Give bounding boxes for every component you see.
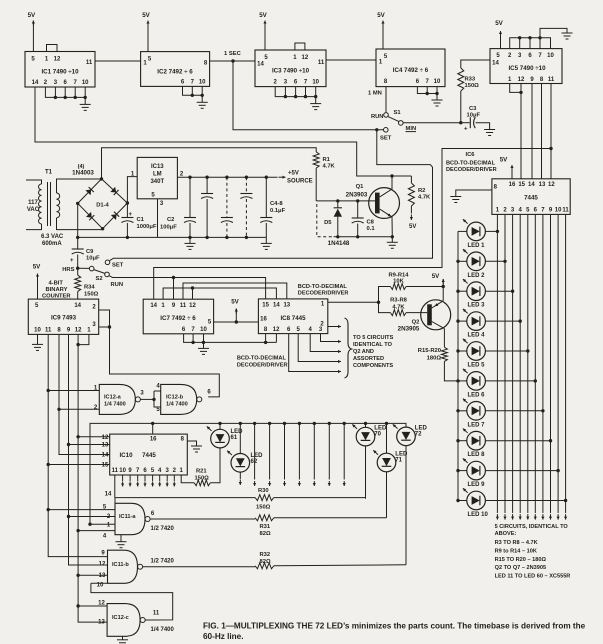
svg-text:SET: SET bbox=[112, 262, 124, 268]
ground IC1 bbox=[80, 97, 91, 110]
junction D5 bottom bbox=[336, 235, 339, 238]
IC9 label bbox=[51, 315, 77, 322]
wire IC1 pin10 bbox=[84, 87, 86, 97]
NAND gate IC11-b 7420 bbox=[108, 550, 143, 583]
svg-text:R9 to R14 – 10K: R9 to R14 – 10K bbox=[495, 548, 537, 554]
wire IC5 pin9 to IC6 pin14 bbox=[531, 84, 533, 179]
wire IC6 output column 6 bbox=[534, 214, 537, 519]
wire IC11-a pin14 stub bbox=[114, 498, 116, 504]
svg-text:7: 7 bbox=[136, 468, 140, 474]
wire IC13 pin3 to ground bus bbox=[157, 199, 159, 238]
junction C7 rail bbox=[265, 176, 268, 179]
svg-text:3: 3 bbox=[92, 322, 96, 328]
svg-text:100μF: 100μF bbox=[160, 225, 177, 231]
ground IC2 bbox=[197, 95, 208, 108]
600mA label bbox=[42, 241, 62, 247]
svg-text:10: 10 bbox=[555, 208, 562, 214]
junction colA IC11a bbox=[47, 508, 50, 511]
svg-text:9: 9 bbox=[530, 77, 534, 83]
junction colC IC10 bbox=[67, 443, 70, 446]
+5V rail bbox=[177, 176, 277, 178]
Q2 label bbox=[412, 320, 420, 326]
wire hidden LED column bbox=[313, 423, 316, 486]
IC11-b 1/2 7420 label bbox=[151, 559, 175, 565]
junction IC9 pin12 jumper bbox=[76, 343, 79, 346]
svg-text:IC11-a: IC11-a bbox=[119, 514, 136, 520]
wire IC12-a out bbox=[141, 398, 155, 400]
IC6 BCD text2 bbox=[446, 167, 497, 173]
svg-text:COMPONENTS: COMPONENTS bbox=[353, 363, 393, 369]
wire IC4 pin10 bbox=[436, 87, 438, 94]
svg-text:5V: 5V bbox=[409, 224, 416, 230]
wire Q1 emitter bus bbox=[334, 236, 393, 238]
wire IC1 pin14 clock line bbox=[35, 87, 411, 176]
svg-text:5V: 5V bbox=[259, 12, 267, 19]
RUN label S2 bbox=[111, 282, 124, 288]
svg-text:IC1 7490 ÷10: IC1 7490 ÷10 bbox=[41, 69, 79, 76]
wire column D IC9 pin12 bbox=[78, 334, 107, 622]
LED 2 bbox=[463, 249, 486, 279]
junction R9 R3 split bbox=[377, 301, 380, 304]
ground IC12-c bbox=[117, 636, 128, 644]
svg-text:3: 3 bbox=[284, 80, 288, 86]
svg-text:340T: 340T bbox=[150, 179, 164, 185]
svg-text:1: 1 bbox=[143, 61, 147, 67]
junction colE IC11a pin1 bbox=[88, 523, 91, 526]
junction hidden LED column bbox=[343, 422, 346, 425]
svg-text:1000μF: 1000μF bbox=[137, 224, 157, 230]
junction IC7 pin9 run line bbox=[172, 276, 175, 279]
svg-text:12: 12 bbox=[548, 182, 555, 188]
wire LED62 anode bbox=[239, 423, 241, 453]
svg-text:S1: S1 bbox=[394, 110, 402, 116]
resistor R15-R20 180ohm bbox=[441, 347, 458, 381]
wire colC to IC10 pin13 bbox=[69, 444, 110, 446]
wire IC10 output arrow bbox=[151, 475, 154, 487]
4-BIT label bbox=[48, 281, 63, 287]
IDENTICAL TO text bbox=[353, 342, 393, 348]
svg-text:5: 5 bbox=[297, 327, 301, 333]
svg-text:1/2 7420: 1/2 7420 bbox=[151, 526, 175, 532]
transistor Q1 2N3903 bbox=[369, 176, 400, 237]
IC4 label bbox=[393, 67, 429, 74]
svg-text:BCD-TO-DECIMAL: BCD-TO-DECIMAL bbox=[446, 161, 496, 167]
wire S1 pole to C3 node bbox=[403, 122, 461, 124]
wire colD to IC11a pin4 bbox=[78, 530, 115, 532]
1N4003 qty label bbox=[78, 164, 85, 170]
svg-text:4-BIT: 4-BIT bbox=[48, 281, 63, 287]
capacitor C2 100uF bbox=[184, 177, 196, 237]
C8 label bbox=[367, 220, 375, 226]
junction colA IC10 bbox=[47, 463, 50, 466]
D5 type bbox=[328, 240, 350, 247]
svg-text:ABOVE:: ABOVE: bbox=[495, 531, 517, 537]
wire IC7 pin12 riser bbox=[192, 288, 194, 299]
transformer T1 bbox=[26, 179, 103, 230]
svg-text:5: 5 bbox=[148, 57, 152, 63]
wire IC3 pin10 bbox=[315, 87, 317, 97]
svg-text:7445: 7445 bbox=[142, 452, 156, 459]
svg-text:IC8 7445: IC8 7445 bbox=[280, 315, 306, 322]
junction hidden LED column bbox=[328, 422, 331, 425]
svg-text:2: 2 bbox=[44, 80, 48, 86]
IC9 pin numbers bbox=[34, 303, 96, 334]
svg-text:IC2 7492 ÷ 6: IC2 7492 ÷ 6 bbox=[157, 69, 193, 76]
svg-text:D1-4: D1-4 bbox=[96, 203, 109, 209]
junction IC5 pin6 bbox=[528, 36, 531, 39]
ground IC6 pin8 bbox=[450, 197, 461, 203]
junction C6 rail bbox=[245, 176, 248, 179]
svg-text:BINARY: BINARY bbox=[45, 287, 67, 293]
svg-text:13: 13 bbox=[539, 182, 546, 188]
ground IC10 pin8 bbox=[191, 446, 202, 452]
wire column B IC9 pin8 bbox=[59, 334, 110, 454]
R30 label bbox=[258, 488, 269, 494]
junction colA IC12a bbox=[47, 389, 50, 392]
5V supply IC6 bbox=[500, 157, 514, 179]
svg-text:10: 10 bbox=[119, 468, 126, 474]
svg-text:150Ω: 150Ω bbox=[84, 292, 99, 298]
svg-text:7: 7 bbox=[541, 208, 545, 214]
wire colB to IC12a pin2 bbox=[59, 408, 99, 410]
switch S1 SET contact bbox=[384, 128, 389, 133]
svg-text:LED 2: LED 2 bbox=[468, 273, 486, 279]
IC11-b pin numbers bbox=[97, 551, 106, 589]
junction IC3 pin10 bbox=[314, 95, 317, 98]
svg-text:ASSORTED: ASSORTED bbox=[353, 356, 384, 362]
wire LED62 cathode arrow bbox=[239, 472, 242, 485]
wire LED70 anode bbox=[365, 423, 367, 427]
wire IC7 pin6 to gnd bus bbox=[184, 334, 277, 343]
wire IC8 pin8 bbox=[265, 334, 267, 343]
LED 8 bbox=[463, 429, 486, 459]
1 SEC label bbox=[224, 51, 242, 57]
wire IC10 pin16 bbox=[152, 423, 154, 434]
svg-text:IDENTICAL TO: IDENTICAL TO bbox=[353, 342, 393, 348]
wire LED 3 cathode bbox=[485, 290, 512, 292]
svg-text:14: 14 bbox=[528, 182, 535, 188]
BINARY label bbox=[45, 287, 67, 293]
svg-text:8: 8 bbox=[540, 77, 544, 83]
resistor R31 82ohm bbox=[150, 515, 386, 521]
capacitor C3 10uF bbox=[461, 117, 490, 132]
1 MN label bbox=[368, 91, 382, 97]
figure caption bbox=[203, 621, 586, 641]
HRS label bbox=[62, 267, 74, 273]
svg-text:13: 13 bbox=[283, 303, 290, 309]
svg-text:6.3 VAC: 6.3 VAC bbox=[41, 234, 64, 240]
svg-text:FIG. 1—MULTIPLEXING THE 72 LED: FIG. 1—MULTIPLEXING THE 72 LED’s minimiz… bbox=[203, 621, 586, 630]
117 VAC label bbox=[28, 200, 38, 206]
IC6 pin numbers bbox=[494, 182, 570, 214]
svg-text:2N3903: 2N3903 bbox=[346, 192, 368, 199]
+5V label bbox=[288, 170, 299, 176]
svg-text:11: 11 bbox=[86, 60, 93, 66]
LED 4 bbox=[463, 309, 486, 339]
wire IC10 output arrow bbox=[121, 475, 124, 487]
svg-text:RUN: RUN bbox=[111, 282, 124, 288]
wire IC4 pin6 to bus bbox=[417, 87, 437, 94]
C1 value bbox=[137, 224, 157, 230]
svg-text:70: 70 bbox=[374, 432, 381, 438]
wire IC1 pin6 bbox=[64, 87, 66, 97]
5V supply Q2 bbox=[432, 273, 445, 287]
IC13 340T bbox=[150, 179, 164, 185]
IC8 7445 decoder bbox=[258, 299, 327, 334]
svg-text:2: 2 bbox=[180, 172, 184, 178]
svg-text:C4-8: C4-8 bbox=[270, 201, 283, 207]
svg-text:LM: LM bbox=[153, 172, 162, 178]
svg-text:5V: 5V bbox=[377, 12, 385, 19]
svg-text:4.7K: 4.7K bbox=[392, 304, 405, 310]
svg-text:14: 14 bbox=[74, 303, 81, 309]
svg-text:14: 14 bbox=[105, 492, 112, 498]
wire IC10 pin8 gnd bbox=[187, 441, 196, 446]
IC11-a 1/2 7420 label bbox=[151, 526, 175, 532]
switch S2 SET contact bbox=[105, 260, 110, 265]
wire IC12-b input top bbox=[154, 390, 161, 392]
wire colA to IC10 pin15 bbox=[48, 464, 109, 466]
wire LED 10 anode bbox=[458, 500, 467, 502]
wire 1SEC drop to SET contacts bbox=[233, 61, 383, 130]
svg-text:Q2 AND: Q2 AND bbox=[353, 349, 374, 355]
svg-text:+: + bbox=[129, 212, 133, 218]
R9-R14 value bbox=[393, 279, 404, 285]
svg-text:5V: 5V bbox=[432, 273, 440, 280]
R15-R20 label bbox=[418, 348, 441, 354]
C3 value bbox=[467, 113, 481, 119]
svg-text:5: 5 bbox=[384, 54, 388, 60]
IC12-b pin numbers bbox=[156, 384, 211, 414]
ground IC3 bbox=[310, 97, 321, 110]
junction LED 8 column bbox=[549, 439, 552, 442]
5V supply IC4 bbox=[377, 12, 385, 49]
junction Q1 emitter bbox=[391, 235, 394, 238]
svg-text:1: 1 bbox=[45, 57, 49, 63]
ground C3 bbox=[484, 130, 495, 136]
svg-text:9: 9 bbox=[172, 303, 176, 309]
svg-text:7: 7 bbox=[191, 327, 195, 333]
R34 value bbox=[84, 292, 99, 298]
junction C9 top bbox=[76, 236, 79, 239]
svg-text:12: 12 bbox=[54, 57, 61, 63]
C8 value bbox=[367, 226, 376, 232]
svg-text:SOURCE: SOURCE bbox=[287, 178, 313, 184]
resistor R1 4.7K bbox=[313, 152, 319, 201]
svg-text:1/4 7400: 1/4 7400 bbox=[104, 401, 126, 407]
svg-text:5V: 5V bbox=[28, 12, 36, 19]
wire LED 4 cathode bbox=[485, 320, 520, 322]
svg-text:C8: C8 bbox=[367, 220, 375, 226]
D5 label bbox=[324, 220, 332, 226]
svg-text:14: 14 bbox=[492, 61, 499, 67]
wire IC6 output column 1 bbox=[496, 214, 499, 519]
svg-text:1 SEC: 1 SEC bbox=[224, 51, 242, 57]
junction LED 7 column bbox=[541, 409, 544, 412]
IC13 LM bbox=[153, 172, 162, 178]
ASSORTED text bbox=[353, 356, 384, 362]
svg-text:Q2 TO Q7 – 2N3905: Q2 TO Q7 – 2N3905 bbox=[495, 565, 547, 571]
svg-text:4.7K: 4.7K bbox=[418, 195, 431, 201]
junction LED 6 column bbox=[534, 379, 537, 382]
MIN label S1 bbox=[406, 126, 417, 132]
wire IC2 pin6 to bus bbox=[183, 86, 203, 95]
junction IC2 pin10 bbox=[201, 94, 204, 97]
C4-8 value bbox=[270, 208, 286, 214]
wire LED61 anode bbox=[219, 423, 221, 429]
switch S2 arm bbox=[94, 270, 105, 274]
notes line2 bbox=[495, 531, 517, 537]
wire LED 5 anode bbox=[458, 350, 467, 352]
svg-text:61: 61 bbox=[231, 435, 238, 441]
switch S2 RUN contact bbox=[105, 272, 110, 277]
6.3 VAC label bbox=[41, 234, 64, 240]
svg-text:11: 11 bbox=[180, 303, 187, 309]
IC10 label bbox=[119, 452, 133, 459]
svg-text:9: 9 bbox=[549, 208, 553, 214]
svg-text:R21: R21 bbox=[196, 469, 207, 475]
svg-text:3: 3 bbox=[140, 391, 144, 397]
R9-R14 label bbox=[389, 273, 410, 279]
junction LED 5 column bbox=[526, 349, 529, 352]
svg-text:1: 1 bbox=[180, 468, 184, 474]
svg-text:5: 5 bbox=[35, 303, 39, 309]
ground IC4 bbox=[432, 94, 443, 107]
wire column C IC9 pin9 bbox=[69, 334, 108, 565]
wire IC6 output column 4 bbox=[519, 214, 522, 519]
wire D5 dashed return bbox=[317, 204, 333, 237]
IC3 pin numbers bbox=[257, 55, 325, 86]
wire LED 2 anode bbox=[458, 260, 467, 262]
wire LED71 cathode bbox=[386, 472, 388, 518]
junction IC5 pin11 tens-minute tap bbox=[549, 147, 552, 150]
IC13 pin numbers bbox=[131, 172, 184, 208]
IC12-c 1/4 7400 label bbox=[151, 627, 175, 633]
COMPONENTS text bbox=[353, 363, 393, 369]
LED 9 bbox=[463, 458, 486, 488]
svg-text:16: 16 bbox=[509, 182, 516, 188]
svg-text:7: 7 bbox=[538, 53, 542, 59]
svg-text:2: 2 bbox=[92, 305, 96, 311]
1N4003 label bbox=[72, 170, 94, 177]
svg-text:10K: 10K bbox=[393, 279, 404, 285]
junction hidden LED column bbox=[283, 422, 286, 425]
junction IC7 pin7 bbox=[191, 341, 194, 344]
svg-text:150Ω: 150Ω bbox=[465, 83, 480, 89]
svg-text:14: 14 bbox=[273, 303, 280, 309]
junction IC3 pin7 bbox=[304, 95, 307, 98]
svg-text:4: 4 bbox=[158, 468, 162, 474]
svg-text:R15-R20: R15-R20 bbox=[418, 348, 441, 354]
resistor R33 150ohm bbox=[458, 68, 464, 123]
svg-text:LED 11 TO LED 60 – XC555R: LED 11 TO LED 60 – XC555R bbox=[495, 574, 571, 580]
wire IC9 pin2 reset bbox=[99, 310, 220, 397]
wire hidden LED column bbox=[283, 423, 286, 486]
svg-text:5V: 5V bbox=[500, 157, 508, 164]
wire bridge+ to IC13 pin1 bbox=[127, 177, 137, 203]
LED 72 bbox=[393, 424, 428, 446]
S2 label bbox=[96, 276, 103, 282]
wire IC10 output arrow bbox=[136, 475, 139, 487]
wire IC8 pin12 bbox=[275, 334, 277, 343]
svg-text:6: 6 bbox=[287, 327, 291, 333]
svg-text:11: 11 bbox=[45, 328, 52, 334]
svg-text:6: 6 bbox=[534, 208, 538, 214]
NAND gate IC12-c bbox=[107, 604, 145, 637]
junction LED70 bus bbox=[364, 422, 367, 425]
junction colD IC12c bbox=[76, 604, 79, 607]
junction C4 bus bbox=[205, 236, 208, 239]
wire hidden LED column bbox=[343, 423, 346, 486]
svg-text:7: 7 bbox=[191, 80, 195, 86]
jumper pin1-pin12 IC3 bbox=[295, 43, 305, 50]
svg-text:6: 6 bbox=[207, 390, 211, 396]
IC5 pin numbers bbox=[492, 53, 555, 83]
junction hidden LED column bbox=[298, 422, 301, 425]
svg-text:IC9 7493: IC9 7493 bbox=[51, 315, 77, 322]
svg-text:T1: T1 bbox=[45, 170, 53, 176]
wire IC1 pin3 bbox=[54, 87, 56, 97]
LED 5 bbox=[463, 339, 486, 369]
svg-text:180Ω: 180Ω bbox=[427, 356, 442, 362]
svg-text:600mA: 600mA bbox=[42, 241, 62, 247]
S1 label bbox=[394, 110, 402, 116]
svg-text:HRS: HRS bbox=[62, 267, 74, 273]
junction LED 8 anode bbox=[456, 439, 459, 442]
R31 label bbox=[260, 524, 271, 530]
wire IC9 pin3 reset bbox=[99, 326, 110, 328]
LED 7 bbox=[463, 399, 486, 429]
resistor R34 150ohm bbox=[75, 268, 81, 299]
wire IC6 output column 9 bbox=[557, 214, 560, 519]
wire colE to IC11a pin1 bbox=[90, 523, 115, 525]
junction C5 bus bbox=[225, 236, 228, 239]
wire hidden LED column bbox=[268, 423, 271, 486]
wire IC2 pin10 bbox=[201, 86, 203, 95]
junction LED 9 anode bbox=[456, 469, 459, 472]
wire LED 3 anode bbox=[458, 290, 467, 292]
junction IC7 pin12 bcd bbox=[191, 286, 194, 289]
svg-text:DECODER/DRIVER: DECODER/DRIVER bbox=[298, 291, 349, 297]
NAND gate IC12-a bbox=[99, 384, 140, 414]
wire IC5 bus to ground bbox=[540, 28, 567, 37]
junction IC8 pin8 bbox=[264, 341, 267, 344]
svg-text:10: 10 bbox=[200, 327, 207, 333]
svg-text:10: 10 bbox=[547, 53, 554, 59]
svg-text:1/4 7400: 1/4 7400 bbox=[151, 627, 175, 633]
wire IC12-c out to IC11-b pin10 bbox=[91, 582, 108, 584]
junction LED 6 anode bbox=[456, 379, 459, 382]
svg-text:3: 3 bbox=[511, 208, 515, 214]
resistor R9-R14 10K bbox=[379, 284, 444, 303]
wire SET to S2 bbox=[110, 130, 433, 261]
svg-text:12: 12 bbox=[99, 562, 106, 568]
svg-text:11: 11 bbox=[112, 468, 119, 474]
COUNTER label bbox=[42, 294, 71, 300]
svg-text:C2: C2 bbox=[167, 217, 174, 223]
junction LED 10 column bbox=[564, 499, 567, 502]
svg-text:IC7 7492 ÷ 6: IC7 7492 ÷ 6 bbox=[160, 315, 196, 322]
wire LED 10 cathode bbox=[485, 500, 565, 502]
R21 label bbox=[196, 469, 207, 475]
wire IC1 pin11 to IC2 pin1 bbox=[95, 60, 141, 62]
regulator IC13 LM340T bbox=[137, 157, 177, 198]
svg-text:5: 5 bbox=[31, 57, 35, 63]
junction LED71 bus bbox=[385, 422, 388, 425]
svg-text:9: 9 bbox=[101, 551, 105, 557]
junction LED 4 column bbox=[519, 319, 522, 322]
svg-text:10: 10 bbox=[312, 80, 319, 86]
